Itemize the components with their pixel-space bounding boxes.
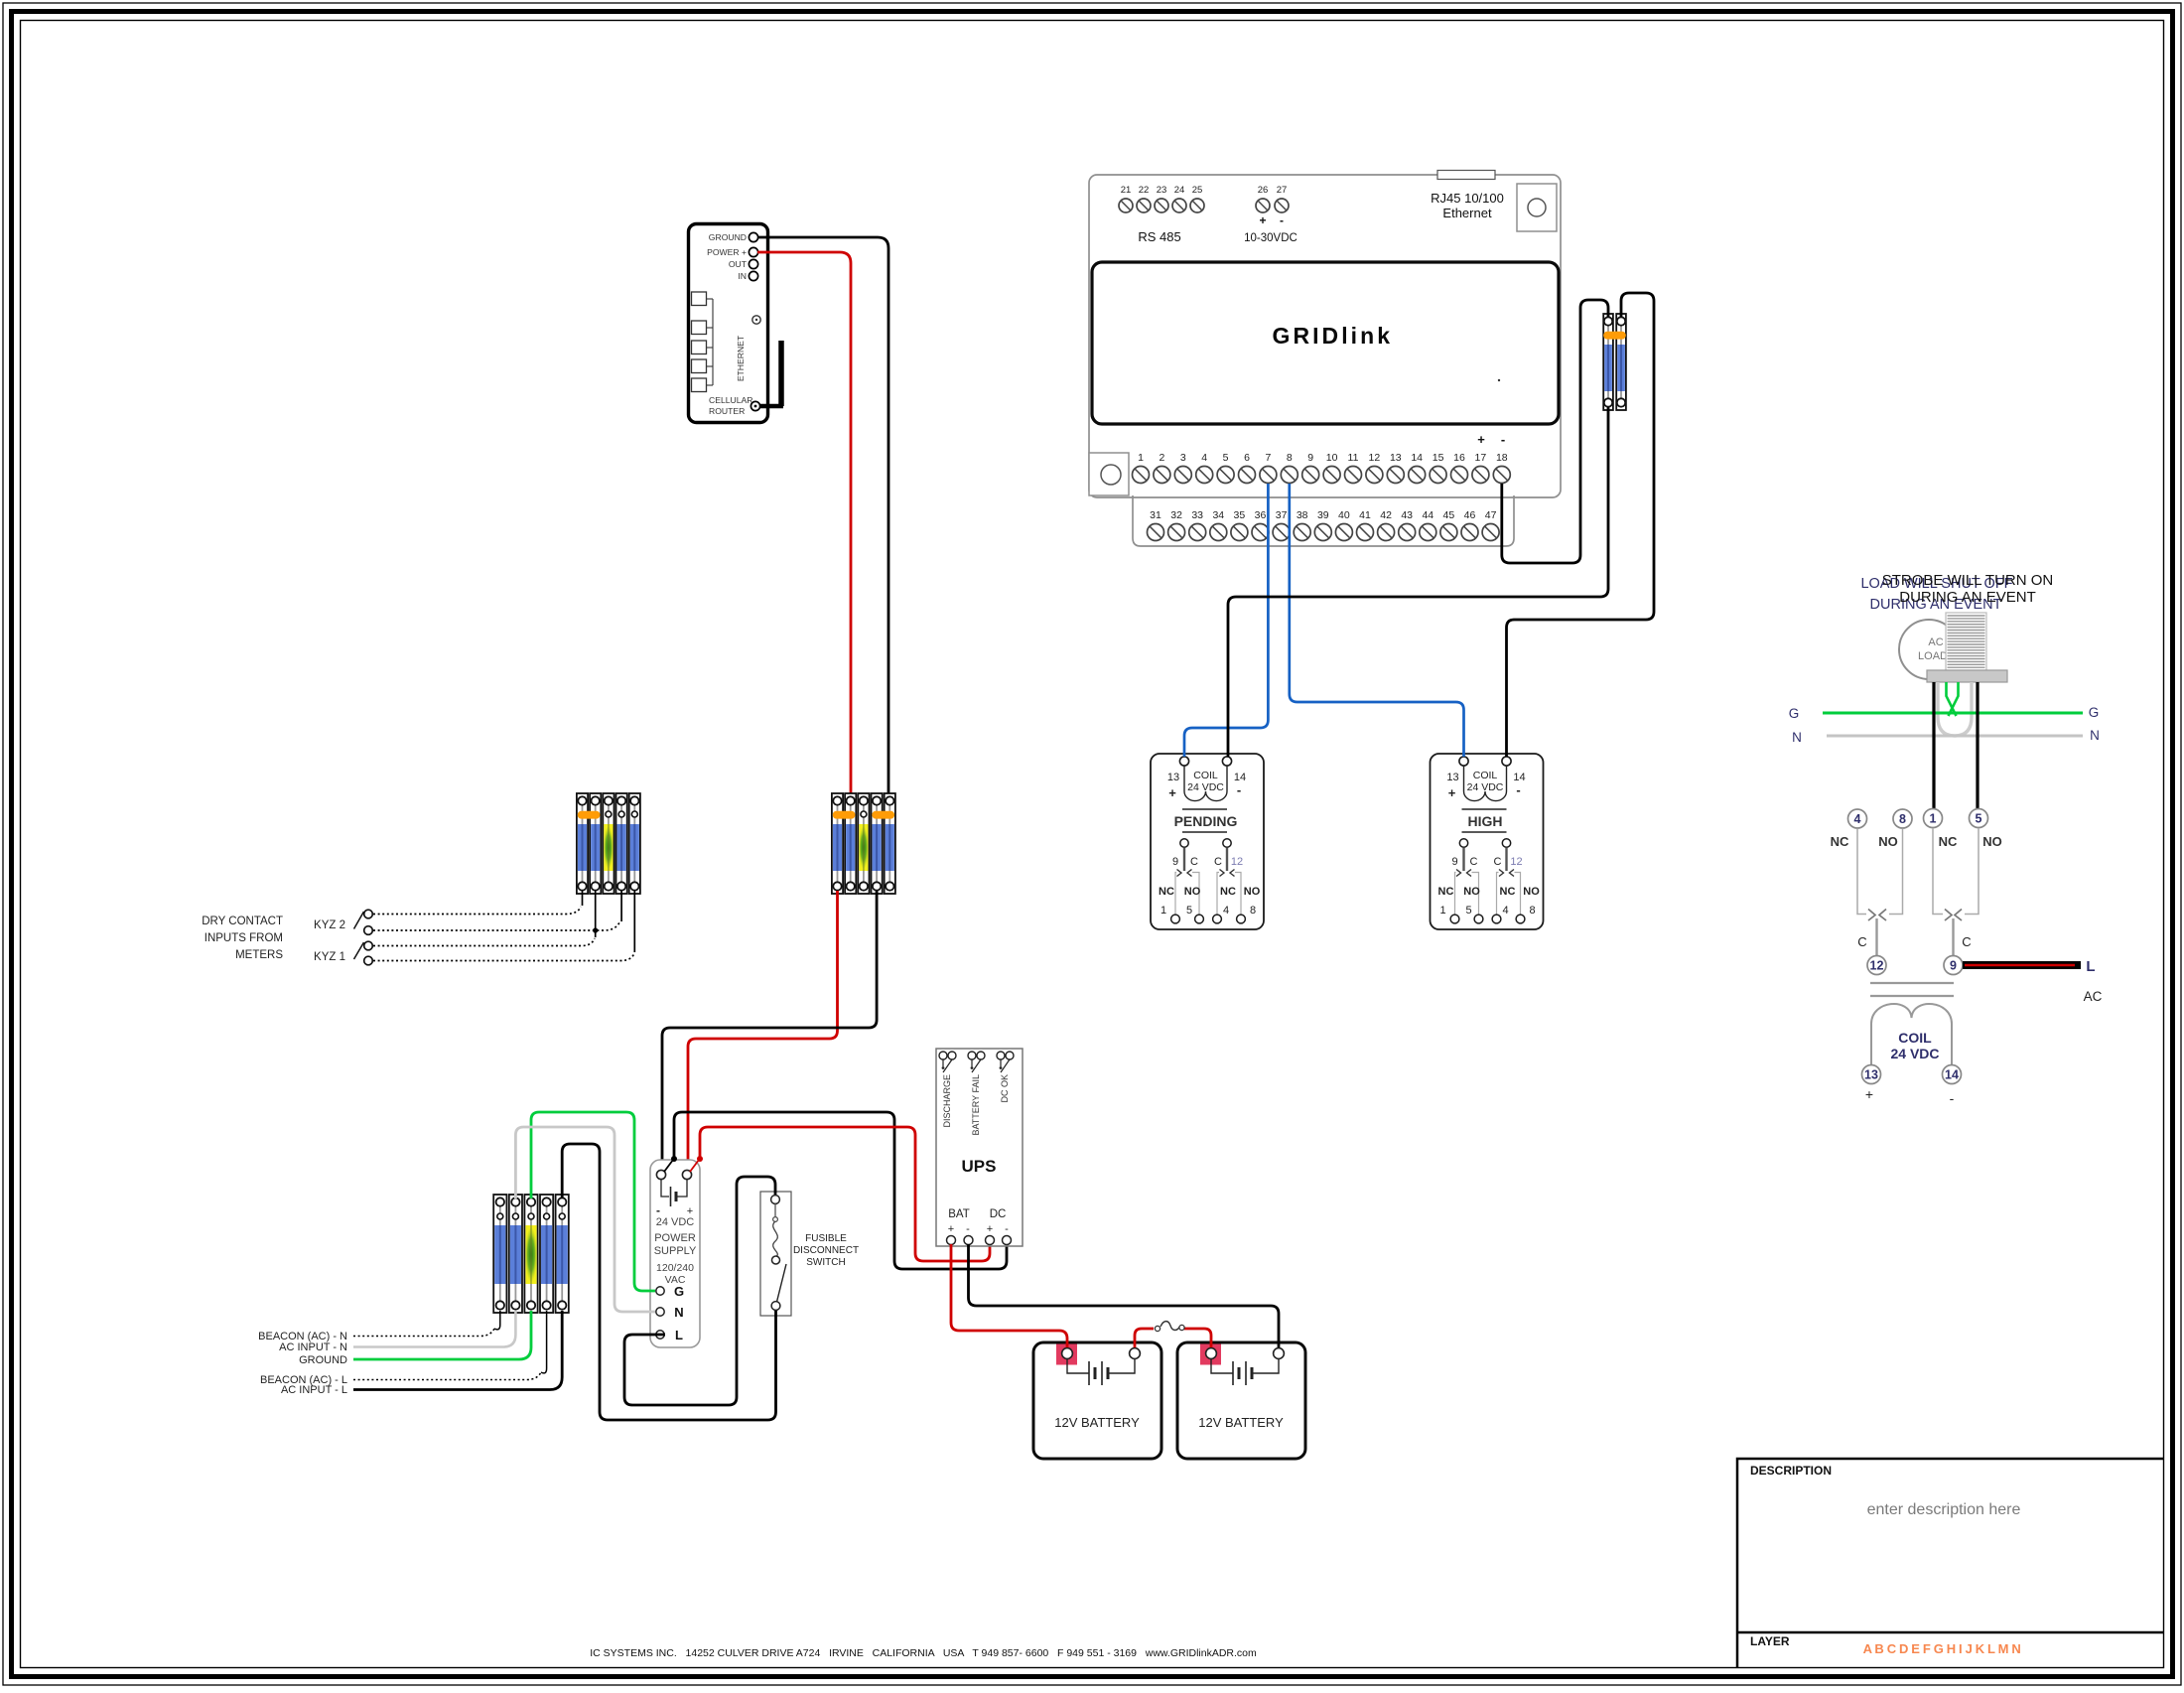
svg-text:15: 15 xyxy=(1433,452,1444,464)
svg-text:-: - xyxy=(1237,782,1241,797)
coil pins 13 14 xyxy=(1862,1065,1881,1084)
svg-text:G: G xyxy=(1789,706,1800,721)
wire AC input N (gray) xyxy=(353,1311,515,1347)
svg-text:33: 33 xyxy=(1191,509,1203,521)
svg-text:32: 32 xyxy=(1170,509,1182,521)
svg-text:1: 1 xyxy=(1439,905,1445,917)
wire terminal7 to PENDING coil13 (blue) xyxy=(1184,484,1268,757)
main module face xyxy=(1092,262,1559,424)
svg-text:4: 4 xyxy=(1854,812,1861,826)
svg-text:LAYER: LAYER xyxy=(1750,1634,1790,1648)
svg-text:-: - xyxy=(1516,782,1520,797)
svg-text:NO: NO xyxy=(1184,886,1201,898)
svg-text:NC: NC xyxy=(1831,834,1849,849)
svg-text:IC SYSTEMS INC. 14252 CULVER: IC SYSTEMS INC. 14252 CULVER DRIVE A724 … xyxy=(590,1647,1257,1659)
wire TB4 strip3 top to PS G (green) xyxy=(531,1112,655,1291)
svg-text:NO: NO xyxy=(1523,886,1540,898)
svg-text:34: 34 xyxy=(1212,509,1224,521)
svg-text:L: L xyxy=(2086,958,2095,975)
svg-text:FUSIBLE: FUSIBLE xyxy=(805,1233,847,1244)
beacon hot wires (black) xyxy=(1932,682,1935,809)
svg-text:21: 21 xyxy=(1121,185,1132,196)
AC load circle xyxy=(1899,620,1959,679)
svg-text:3: 3 xyxy=(1180,452,1186,464)
wire UPS BAT+ to battery1 + (red) xyxy=(951,1244,1067,1347)
svg-text:-: - xyxy=(1005,1223,1009,1235)
svg-text:DURING AN EVENT: DURING AN EVENT xyxy=(1899,589,2036,606)
svg-text:L: L xyxy=(675,1328,683,1342)
svg-text:COIL: COIL xyxy=(1473,770,1498,781)
wire TB2 strip4 bottom to PS minus (black) xyxy=(662,891,877,1172)
svg-text:DRY CONTACT: DRY CONTACT xyxy=(202,916,283,927)
svg-text:10: 10 xyxy=(1326,452,1338,464)
contact 1 xyxy=(1180,839,1188,847)
svg-text:36: 36 xyxy=(1255,509,1267,521)
svg-text:22: 22 xyxy=(1139,185,1150,196)
KYZ 2 switch xyxy=(364,910,373,918)
svg-text:+: + xyxy=(1259,213,1266,227)
lamp tube xyxy=(1938,682,1972,736)
svg-text:GROUND: GROUND xyxy=(709,232,747,242)
svg-text:ETHERNET: ETHERNET xyxy=(736,335,746,381)
L conductor (black/red) xyxy=(1963,961,2081,969)
svg-text:11: 11 xyxy=(1348,452,1359,464)
wire terminal18 to TB3 strip1 top (black) xyxy=(1502,300,1608,563)
svg-text:24 VDC: 24 VDC xyxy=(656,1216,695,1228)
svg-text:DC OK: DC OK xyxy=(1000,1074,1010,1103)
svg-text:24: 24 xyxy=(1174,185,1185,196)
svg-text:35: 35 xyxy=(1234,509,1246,521)
KYZ 1 switch xyxy=(364,941,373,950)
KYZ2 wire b (dotted) xyxy=(373,922,619,930)
svg-text:SWITCH: SWITCH xyxy=(806,1257,845,1268)
svg-text:C: C xyxy=(1190,856,1198,868)
svg-text:AC INPUT - N: AC INPUT - N xyxy=(279,1341,347,1353)
svg-text:NC: NC xyxy=(1939,834,1958,849)
GRIDlink controller U1 xyxy=(1089,171,1561,547)
svg-text:-: - xyxy=(656,1203,660,1217)
svg-text:40: 40 xyxy=(1338,509,1350,521)
svg-text:13: 13 xyxy=(1864,1068,1878,1082)
svg-text:DISCHARGE: DISCHARGE xyxy=(942,1074,952,1128)
svg-text:7: 7 xyxy=(1265,452,1271,464)
battery B1 xyxy=(1033,1342,1161,1459)
svg-text:UPS: UPS xyxy=(962,1157,997,1176)
svg-text:4: 4 xyxy=(1201,452,1207,464)
svg-text:5: 5 xyxy=(1223,452,1229,464)
KYZ1 wire a (dotted) xyxy=(373,938,595,946)
svg-text:13: 13 xyxy=(1390,452,1402,464)
svg-text:AC INPUT - L: AC INPUT - L xyxy=(281,1384,347,1396)
svg-text:+: + xyxy=(1448,785,1456,800)
svg-text:31: 31 xyxy=(1150,509,1161,521)
wire PS minus to UPS DC minus (black) xyxy=(674,1112,1007,1269)
svg-text:13: 13 xyxy=(1167,772,1179,783)
wire TB2 strip1 bottom to PS plus (red) xyxy=(688,891,838,1172)
svg-text:+: + xyxy=(948,1223,954,1235)
svg-text:STROBE WILL TURN ON: STROBE WILL TURN ON xyxy=(1882,572,2054,589)
svg-text:Ethernet: Ethernet xyxy=(1442,206,1492,220)
svg-text:+: + xyxy=(1168,785,1176,800)
svg-text:12: 12 xyxy=(1870,959,1884,973)
svg-text:45: 45 xyxy=(1443,509,1455,521)
svg-text:27: 27 xyxy=(1277,185,1288,196)
svg-text:C: C xyxy=(1857,934,1866,949)
svg-text:RS 485: RS 485 xyxy=(1138,229,1180,244)
svg-text:C: C xyxy=(1962,934,1971,949)
fuse F1 xyxy=(1155,1326,1160,1331)
battery interconnect fuse (red) xyxy=(1135,1329,1154,1347)
wire terminal8 to HIGH coil13 (blue) xyxy=(1290,484,1464,757)
svg-text:10-30VDC: 10-30VDC xyxy=(1244,232,1297,244)
svg-text:24 VDC: 24 VDC xyxy=(1890,1046,1939,1061)
pins 12 and 9 xyxy=(1867,956,1886,975)
svg-text:5: 5 xyxy=(1186,905,1192,917)
wire ground (green) xyxy=(353,1311,531,1359)
svg-text:23: 23 xyxy=(1157,185,1167,196)
KYZ1 wire b (dotted) xyxy=(373,953,634,961)
terminal block group TB2 (router power) xyxy=(832,793,895,894)
svg-text:C: C xyxy=(1214,856,1222,868)
junction dot xyxy=(593,927,598,932)
svg-text:METERS: METERS xyxy=(235,949,283,961)
svg-text:14: 14 xyxy=(1411,452,1423,464)
svg-text:POWER: POWER xyxy=(654,1232,696,1244)
svg-text:9: 9 xyxy=(1172,856,1178,868)
N conductor (gray) xyxy=(1827,735,2083,738)
contact 1 xyxy=(1459,839,1467,847)
svg-text:COIL: COIL xyxy=(1898,1030,1932,1046)
svg-text:17: 17 xyxy=(1475,452,1487,464)
terminal block group TB1 (KYZ inputs) xyxy=(577,793,640,894)
svg-text:INPUTS FROM: INPUTS FROM xyxy=(205,932,283,944)
relay K2 HIGH xyxy=(1431,754,1544,929)
svg-text:GRIDlink: GRIDlink xyxy=(1273,323,1391,349)
svg-text:CELLULAR: CELLULAR xyxy=(709,395,752,405)
relay core lines xyxy=(1870,982,1954,984)
wire router power (red) xyxy=(757,252,851,796)
svg-text:DISCONNECT: DISCONNECT xyxy=(793,1245,859,1256)
svg-text:8: 8 xyxy=(1529,905,1535,917)
contact 2 xyxy=(1502,839,1510,847)
svg-text:12V BATTERY: 12V BATTERY xyxy=(1198,1415,1284,1430)
svg-text:BAT: BAT xyxy=(948,1208,970,1220)
wire beacon N (dotted) xyxy=(353,1329,494,1337)
svg-text:1: 1 xyxy=(1930,812,1937,826)
svg-text:47: 47 xyxy=(1485,509,1497,521)
svg-text:14: 14 xyxy=(1945,1068,1959,1082)
svg-text:NO: NO xyxy=(1463,886,1480,898)
svg-text:12V BATTERY: 12V BATTERY xyxy=(1054,1415,1140,1430)
svg-text:6: 6 xyxy=(1244,452,1250,464)
svg-text:PENDING: PENDING xyxy=(1174,813,1238,829)
contact linkage left xyxy=(1857,829,1866,915)
KYZ2 wire a (dotted) xyxy=(373,907,581,915)
svg-text:N: N xyxy=(2090,728,2100,743)
svg-text:8: 8 xyxy=(1287,452,1293,464)
svg-text:AC: AC xyxy=(1928,636,1943,648)
svg-text:C: C xyxy=(1494,856,1502,868)
svg-text:1: 1 xyxy=(1160,905,1166,917)
svg-text:9: 9 xyxy=(1451,856,1457,868)
svg-text:-: - xyxy=(1501,432,1505,447)
jumper bar xyxy=(1603,332,1626,340)
svg-text:+: + xyxy=(1477,432,1485,447)
RJ45 mount tab xyxy=(1517,184,1557,231)
coil symbol xyxy=(1464,766,1507,801)
svg-text:-: - xyxy=(966,1223,970,1235)
svg-text:4: 4 xyxy=(1502,905,1508,917)
svg-text:A B C D E F G H I J K L M N: A B C D E F G H I J K L M N xyxy=(1863,1641,2021,1656)
svg-text:8: 8 xyxy=(1899,812,1906,826)
svg-text:DESCRIPTION: DESCRIPTION xyxy=(1750,1464,1832,1478)
svg-text:13: 13 xyxy=(1446,772,1458,783)
svg-text:NO: NO xyxy=(1982,834,2002,849)
svg-text:N: N xyxy=(1792,730,1802,745)
svg-text:AC: AC xyxy=(2084,989,2103,1004)
svg-text:NC: NC xyxy=(1159,886,1174,898)
svg-text:-: - xyxy=(1950,1090,1955,1106)
relay coil (beacon) xyxy=(1871,1004,1952,1064)
svg-text:RJ45 10/100: RJ45 10/100 xyxy=(1431,191,1504,206)
svg-text:44: 44 xyxy=(1422,509,1433,521)
terminal block group TB4 (AC input) xyxy=(493,1195,569,1313)
svg-text:enter description here: enter description here xyxy=(1867,1501,2021,1518)
svg-text:LOAD: LOAD xyxy=(1918,650,1948,662)
wire TB4 strip5 top to FDS bottom (black) xyxy=(562,1144,775,1420)
svg-text:1: 1 xyxy=(1138,452,1144,464)
jumper bar xyxy=(578,811,601,819)
terminal row 31-47 xyxy=(1133,495,1514,546)
svg-text:KYZ 2: KYZ 2 xyxy=(314,919,345,931)
svg-text:12: 12 xyxy=(1231,856,1243,868)
left mount tab xyxy=(1089,453,1129,495)
svg-text:16: 16 xyxy=(1453,452,1465,464)
svg-text:4: 4 xyxy=(1223,905,1229,917)
svg-text:43: 43 xyxy=(1401,509,1413,521)
svg-text:NO: NO xyxy=(1878,834,1898,849)
svg-text:NC: NC xyxy=(1220,886,1236,898)
svg-text:ROUTER: ROUTER xyxy=(709,406,745,416)
UPS U2 xyxy=(936,1049,1023,1246)
wire TB4 strip2 top to PS N (gray) xyxy=(515,1127,655,1312)
svg-text:8: 8 xyxy=(1250,905,1256,917)
svg-text:COIL: COIL xyxy=(1193,770,1218,781)
svg-text:39: 39 xyxy=(1317,509,1329,521)
svg-text:KYZ 1: KYZ 1 xyxy=(314,951,345,963)
strobe lamp cylinder xyxy=(1946,613,1986,670)
jumper bar xyxy=(872,811,894,819)
svg-text:NC: NC xyxy=(1500,886,1516,898)
junction dots xyxy=(664,1160,673,1172)
svg-text:POWER +: POWER + xyxy=(707,247,747,257)
svg-text:N: N xyxy=(674,1305,683,1320)
svg-text:DC: DC xyxy=(990,1208,1007,1220)
svg-text:SUPPLY: SUPPLY xyxy=(654,1245,697,1257)
wire PS plus to UPS DC plus (red) xyxy=(700,1127,990,1261)
description title block xyxy=(1737,1459,2164,1668)
svg-text:9: 9 xyxy=(1950,959,1957,973)
power supply PS1 xyxy=(650,1156,703,1347)
contact 2 xyxy=(1223,839,1231,847)
svg-text:BATTERY FAIL: BATTERY FAIL xyxy=(971,1074,981,1136)
svg-text:+: + xyxy=(1865,1086,1873,1102)
svg-text:G: G xyxy=(674,1284,684,1299)
svg-text:-: - xyxy=(1280,213,1284,227)
relay contact pins 4 8 1 5 xyxy=(1848,809,1867,828)
svg-text:25: 25 xyxy=(1192,185,1203,196)
wire AC input L (black) xyxy=(353,1311,562,1390)
svg-text:42: 42 xyxy=(1380,509,1392,521)
svg-text:GROUND: GROUND xyxy=(299,1354,347,1366)
svg-text:37: 37 xyxy=(1276,509,1288,521)
wire router ground (black) xyxy=(757,237,888,796)
top notch xyxy=(1437,171,1495,180)
wire PS L to FDS top (black) xyxy=(624,1177,775,1405)
wire TB3 strip2 top to HIGH coil14 (black) xyxy=(1507,293,1655,757)
svg-text:NC: NC xyxy=(1438,886,1454,898)
terminal block group TB3 (relay supply) xyxy=(1603,314,1626,410)
svg-text:G: G xyxy=(2089,705,2100,720)
contact linkage right xyxy=(1933,829,1943,915)
svg-text:41: 41 xyxy=(1359,509,1371,521)
svg-text:5: 5 xyxy=(1465,905,1471,917)
svg-text:+: + xyxy=(987,1223,993,1235)
svg-text:IN: IN xyxy=(738,271,747,281)
svg-text:OUT: OUT xyxy=(729,259,748,269)
strobe base xyxy=(1927,670,2007,682)
G conductor (green) xyxy=(1823,712,2083,715)
svg-text:12: 12 xyxy=(1510,856,1522,868)
cellular router U10 xyxy=(689,224,784,423)
svg-text:C: C xyxy=(1470,856,1478,868)
svg-text:NO: NO xyxy=(1244,886,1261,898)
wire TB3 strip1 bottom to PENDING coil14 (black) xyxy=(1228,407,1608,757)
battery symbol xyxy=(661,1180,669,1197)
svg-text:18: 18 xyxy=(1496,452,1508,464)
wire beacon L (dotted) xyxy=(353,1372,541,1380)
battery B2 xyxy=(1177,1342,1305,1459)
svg-text:120/240: 120/240 xyxy=(656,1262,694,1274)
lamp leads (green) xyxy=(1947,682,1957,716)
svg-text:46: 46 xyxy=(1464,509,1476,521)
coil symbol xyxy=(1184,766,1227,801)
relay K1 PENDING xyxy=(1151,754,1264,929)
jumper bar xyxy=(833,811,856,819)
svg-text:2: 2 xyxy=(1159,452,1164,464)
svg-text:26: 26 xyxy=(1258,185,1269,196)
svg-text:38: 38 xyxy=(1297,509,1308,521)
antenna xyxy=(751,401,759,410)
wire UPS BAT- to battery2 - (black) xyxy=(969,1244,1280,1347)
svg-text:9: 9 xyxy=(1307,452,1313,464)
svg-text:5: 5 xyxy=(1976,812,1982,826)
svg-text:12: 12 xyxy=(1369,452,1381,464)
svg-text:HIGH: HIGH xyxy=(1468,813,1503,829)
fusible disconnect switch SW1 xyxy=(760,1192,859,1316)
